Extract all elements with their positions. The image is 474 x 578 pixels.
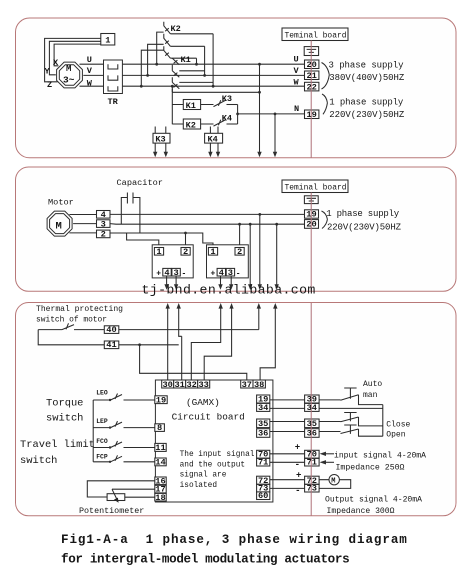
- panel 1 border frame: [16, 18, 457, 158]
- svg-text:Open: Open: [386, 430, 405, 439]
- arrow riser A3: [191, 308, 220, 381]
- svg-text:M: M: [331, 478, 335, 486]
- svg-text:60: 60: [258, 491, 268, 501]
- wire drop c: [276, 224, 278, 285]
- svg-text:71: 71: [258, 458, 268, 468]
- capacitor C plates: [127, 193, 133, 204]
- red fold line panel 1: [310, 41, 312, 158]
- panel 3 border frame: [16, 303, 457, 516]
- svg-text:switch: switch: [20, 455, 57, 467]
- svg-text:19: 19: [306, 110, 316, 120]
- wire K2 coil leads: [172, 123, 213, 125]
- svg-text:20: 20: [306, 60, 316, 70]
- junction dots panel 2: [184, 213, 278, 234]
- relay1 pin 4: [163, 268, 171, 276]
- brace 1 phase: [322, 94, 327, 114]
- svg-text:380V(400V)50HZ: 380V(400V)50HZ: [329, 73, 405, 83]
- right terminal 71: [257, 458, 270, 466]
- terminal 30: [162, 380, 174, 388]
- svg-text:Torque: Torque: [46, 398, 83, 410]
- wire K2 output to V: [170, 46, 204, 75]
- arrow riser A5: [258, 308, 260, 330]
- wire phase V: [83, 74, 304, 76]
- svg-text:Fig1-A-a 1 phase, 3 phase wir: Fig1-A-a 1 phase, 3 phase wiring diagram: [61, 533, 408, 547]
- svg-text:U: U: [294, 55, 299, 65]
- wire K3 box stubs: [155, 127, 166, 153]
- svg-text:20: 20: [306, 220, 316, 230]
- switch FCO: [93, 441, 155, 448]
- relay coil K1 box: [183, 100, 200, 110]
- thermal switch of motor: [38, 323, 104, 329]
- svg-text:K3: K3: [222, 94, 232, 104]
- potentiometer: [107, 494, 125, 501]
- svg-text:14: 14: [155, 458, 165, 468]
- left terminal 8: [155, 424, 165, 432]
- arrow riser A6: [260, 308, 275, 381]
- ground symbol panel2: [304, 196, 318, 204]
- relay1 pin 3: [172, 268, 180, 276]
- svg-text:for intergral-model modulating: for intergral-model modulating actuators: [61, 553, 349, 567]
- terminal 3 box: [97, 220, 111, 228]
- svg-text:Teminal board: Teminal board: [285, 31, 347, 41]
- right terminal 73: [257, 484, 270, 492]
- svg-text:Teminal board: Teminal board: [285, 183, 347, 193]
- junction aux node: [236, 113, 239, 116]
- column2 terminal 73: [305, 484, 320, 492]
- wire phase U: [80, 63, 305, 65]
- svg-text:4: 4: [219, 268, 224, 278]
- svg-text:34: 34: [258, 403, 268, 413]
- wire tap U to contactor K2: [157, 32, 164, 64]
- terminal board box: [282, 28, 348, 41]
- svg-text:X: X: [53, 58, 59, 68]
- relay1 pin 1: [154, 248, 163, 256]
- svg-text:3~: 3~: [63, 75, 75, 86]
- relay1 pin 2: [181, 248, 190, 256]
- svg-text:Thermal protecting: Thermal protecting: [36, 304, 123, 314]
- terminal 21: [305, 71, 319, 80]
- output loop wire: [319, 480, 351, 489]
- svg-text:Output signal 4-20mA: Output signal 4-20mA: [325, 494, 422, 504]
- wire to terminal 37: [140, 345, 247, 380]
- capacitor left lead: [121, 198, 127, 225]
- wire aux loop left vertical: [171, 86, 173, 124]
- wire 36-36: [270, 431, 305, 433]
- svg-text:220V(230V)50HZ: 220V(230V)50HZ: [329, 110, 405, 120]
- brace 3 phase: [322, 63, 330, 90]
- wire motor to terminal 4: [69, 214, 96, 216]
- terminal 4 box: [97, 211, 111, 219]
- right terminal 35: [257, 419, 270, 428]
- svg-text:36: 36: [307, 429, 317, 439]
- capacitor right lead: [133, 198, 140, 234]
- svg-text:TR: TR: [108, 97, 119, 107]
- right terminal 72: [257, 476, 270, 484]
- terminal 2 box: [97, 230, 111, 238]
- svg-text:switch of motor: switch of motor: [36, 315, 107, 325]
- svg-text:Auto: Auto: [363, 380, 382, 389]
- wire K1 output to W: [179, 81, 213, 83]
- svg-text:U: U: [87, 55, 92, 65]
- relay2 pin 4: [217, 268, 225, 276]
- column2 terminal 70: [305, 450, 320, 458]
- svg-text:and the output: and the output: [180, 461, 246, 469]
- relay block 2: [207, 245, 249, 278]
- svg-text:LEP: LEP: [96, 418, 108, 425]
- wire motor to terminal 3: [73, 223, 96, 225]
- svg-text:LEO: LEO: [96, 390, 108, 397]
- svg-text:+: +: [295, 443, 300, 453]
- wire relay1 input 1: [127, 233, 159, 248]
- panel 2 border frame: [16, 167, 457, 291]
- thermal switch loop wire: [38, 330, 104, 345]
- wire terminal 4 to board 19: [110, 213, 305, 215]
- svg-text:N: N: [294, 104, 299, 114]
- svg-text:FCP: FCP: [96, 453, 108, 460]
- wire 34-34: [270, 407, 305, 409]
- svg-text:Travel limit: Travel limit: [20, 439, 95, 451]
- wire K3 output: [227, 104, 238, 106]
- svg-text:19: 19: [156, 395, 166, 405]
- motor M single phase: [47, 211, 72, 236]
- column2 terminal 35: [305, 419, 320, 428]
- svg-text:man: man: [363, 391, 378, 400]
- wire 73-73: [270, 487, 305, 489]
- wire drop b: [249, 224, 251, 285]
- terminal box 1: [101, 34, 115, 46]
- svg-text:switch: switch: [46, 413, 83, 425]
- svg-text:2: 2: [237, 247, 242, 257]
- switch common wire: [92, 400, 94, 462]
- svg-text:+: +: [211, 269, 216, 278]
- column2 terminal 72: [305, 476, 320, 484]
- wire K2/K1 output to U: [170, 58, 196, 64]
- wire terminal 16 loop: [87, 481, 155, 497]
- switch LEO: [93, 394, 155, 401]
- svg-text:-: -: [295, 486, 300, 496]
- svg-text:(GAMX): (GAMX): [186, 397, 220, 408]
- junction N drop: [274, 113, 277, 116]
- terminal 31: [174, 380, 186, 388]
- left terminal 18: [155, 493, 166, 501]
- wire drop a: [259, 214, 261, 285]
- left terminal 11: [155, 443, 166, 451]
- column2 terminal 39: [305, 395, 320, 403]
- svg-text:K2: K2: [171, 24, 181, 34]
- svg-text:18: 18: [155, 493, 165, 503]
- relay contact K3 box: [153, 133, 170, 143]
- svg-text:tj-bnd.en.alibaba.com: tj-bnd.en.alibaba.com: [142, 283, 316, 298]
- junction dots phase taps: [140, 63, 215, 88]
- wire tap V to contactor K2: [148, 44, 164, 75]
- arrow riser A4: [204, 308, 231, 381]
- relay contact K4 box: [205, 133, 223, 143]
- wire 19-39: [270, 399, 305, 401]
- GAMX circuit board: [155, 380, 273, 502]
- svg-text:Y: Y: [45, 67, 51, 77]
- svg-text:1 phase supply: 1 phase supply: [329, 98, 404, 108]
- wire aux loop top: [172, 91, 259, 93]
- left terminal 14: [155, 458, 166, 466]
- svg-text:W: W: [87, 78, 93, 88]
- wire 41 run: [119, 344, 179, 346]
- svg-text:3: 3: [173, 268, 178, 278]
- right terminal 60: [257, 492, 270, 500]
- wire motor to terminal 2: [69, 232, 96, 234]
- svg-text:Potentiometer: Potentiometer: [79, 506, 144, 516]
- wire terminal 17 to wiper: [112, 488, 155, 490]
- svg-text:+: +: [156, 269, 161, 278]
- contactor K1 blades: [172, 58, 179, 92]
- svg-text:Capacitor: Capacitor: [117, 178, 163, 188]
- terminal 19: [305, 110, 319, 119]
- svg-text:Impedance 300Ω: Impedance 300Ω: [327, 506, 395, 516]
- output motor m: [329, 475, 339, 485]
- terminal 40 box: [104, 326, 119, 334]
- svg-text:K4: K4: [222, 113, 232, 123]
- svg-text:1: 1: [210, 247, 215, 257]
- junction aux top drop: [258, 91, 261, 94]
- svg-text:33: 33: [198, 380, 208, 390]
- svg-text:8: 8: [157, 423, 162, 433]
- svg-text:Close: Close: [386, 421, 410, 430]
- potentiometer wiper arrow: [112, 489, 117, 499]
- relay2 pin 3: [226, 268, 234, 276]
- relay block 1: [152, 245, 193, 278]
- wire terminal 2 run: [110, 233, 213, 248]
- svg-text:W: W: [294, 78, 300, 88]
- wire motor Y to terminal box 1: [49, 41, 100, 75]
- svg-text:37: 37: [242, 380, 252, 390]
- svg-text:2: 2: [183, 247, 188, 257]
- svg-text:41: 41: [106, 340, 116, 350]
- switch open: [319, 429, 383, 436]
- svg-text:-: -: [236, 269, 241, 278]
- svg-text:M: M: [66, 64, 71, 74]
- left terminal 19: [155, 396, 167, 404]
- svg-text:1: 1: [105, 36, 110, 46]
- svg-text:11: 11: [155, 443, 165, 453]
- wire K4 output: [227, 123, 238, 125]
- wire terminal 3 to board 20: [110, 223, 305, 226]
- terminal 20 panel2: [305, 220, 319, 229]
- terminal 22: [305, 82, 319, 91]
- relay2 pin 1: [208, 248, 217, 256]
- svg-text:1 phase supply: 1 phase supply: [326, 209, 400, 219]
- wire 70-70: [270, 453, 305, 455]
- right terminal 36: [257, 429, 270, 438]
- svg-text:3: 3: [228, 268, 233, 278]
- svg-text:K3: K3: [155, 135, 165, 145]
- switch K3: [214, 100, 226, 106]
- svg-text:signal are: signal are: [180, 472, 227, 480]
- svg-text:Z: Z: [47, 80, 52, 90]
- junction U drop: [258, 63, 261, 66]
- motor M 3-phase: [57, 62, 83, 88]
- wire K2 output to W: [170, 34, 213, 86]
- svg-text:2: 2: [101, 230, 106, 240]
- svg-text:K1: K1: [186, 101, 196, 111]
- svg-text:36: 36: [258, 429, 268, 439]
- brace 1 phase panel2: [322, 211, 328, 229]
- switch K4: [214, 120, 226, 126]
- svg-text:K4: K4: [208, 135, 218, 145]
- terminal 41 box: [104, 341, 119, 349]
- svg-text:34: 34: [307, 403, 317, 413]
- red fold line panel 3: [310, 303, 312, 516]
- switch close: [319, 417, 383, 426]
- terminal 19 panel2: [305, 210, 319, 218]
- wire 72-72: [270, 479, 305, 481]
- right terminal 34: [257, 403, 270, 411]
- svg-text:35: 35: [307, 419, 317, 429]
- right terminal 19: [257, 395, 270, 403]
- wire 35-35: [270, 421, 305, 423]
- wire K1 coil leads: [172, 104, 213, 106]
- wire K4 box stubs: [210, 127, 218, 153]
- svg-text:input signal 4-20mA: input signal 4-20mA: [334, 450, 426, 460]
- red fold line panel 2: [310, 193, 312, 292]
- svg-text:-: -: [182, 269, 187, 278]
- relay1 output arrows: [167, 276, 177, 285]
- svg-text:+: +: [296, 471, 301, 481]
- svg-text:K2: K2: [186, 120, 196, 130]
- svg-text:Circuit board: Circuit board: [172, 412, 245, 423]
- junction 41 branch: [138, 343, 141, 346]
- wire relay1 input 2: [185, 233, 187, 248]
- column2 terminal 36: [305, 429, 320, 438]
- wire relay2 input 2: [239, 224, 241, 247]
- svg-text:The input signal: The input signal: [180, 451, 255, 459]
- terminal 37: [241, 380, 253, 388]
- ground symbol: [304, 47, 318, 56]
- svg-text:FCO: FCO: [96, 438, 108, 445]
- wire aux right vertical: [237, 105, 239, 125]
- relay2 pin 2: [235, 248, 244, 256]
- svg-text:32: 32: [186, 380, 196, 390]
- switch LEP: [93, 421, 155, 428]
- relay coil K2 box: [183, 119, 200, 129]
- svg-text:3 phase supply: 3 phase supply: [329, 61, 405, 71]
- svg-text:71: 71: [307, 458, 317, 468]
- svg-text:19: 19: [306, 210, 316, 220]
- wire motor X to terminal box 1: [54, 44, 101, 66]
- right terminal 70: [257, 450, 270, 458]
- terminal 32: [186, 380, 198, 388]
- wire motor Z to terminal box 1: [45, 38, 101, 81]
- switch FCP: [93, 455, 155, 462]
- svg-text:220V(230V)50HZ: 220V(230V)50HZ: [327, 223, 402, 233]
- svg-text:-: -: [295, 460, 300, 470]
- svg-text:isolated: isolated: [180, 482, 217, 490]
- wire tap W to contactor K2: [141, 50, 163, 86]
- svg-text:V: V: [294, 66, 300, 76]
- left terminal 16: [155, 477, 166, 485]
- svg-text:35: 35: [258, 419, 268, 429]
- svg-text:V: V: [87, 66, 93, 76]
- wire drop to terminal 30: [167, 345, 169, 380]
- contactor K2 blades: [164, 22, 171, 58]
- thermal relay TR: [104, 60, 123, 94]
- column2 terminal 71: [305, 458, 320, 466]
- terminal 20: [305, 60, 319, 69]
- svg-text:73: 73: [307, 484, 317, 494]
- wire drop to actuator 2: [274, 114, 276, 153]
- wire 71-71: [270, 461, 305, 463]
- wire phase W: [80, 85, 305, 87]
- relay2 output arrows: [221, 276, 232, 285]
- input signal arrows: [323, 453, 334, 455]
- svg-text:Impedance 250Ω: Impedance 250Ω: [336, 462, 405, 472]
- left terminal 17: [155, 485, 166, 493]
- svg-text:4: 4: [164, 268, 169, 278]
- terminal board box panel2: [282, 180, 348, 193]
- svg-text:38: 38: [254, 380, 264, 390]
- terminal 38: [253, 380, 265, 388]
- wire drop to terminal 31: [181, 336, 183, 380]
- svg-text:30: 30: [162, 380, 172, 390]
- svg-text:40: 40: [106, 325, 116, 335]
- svg-text:31: 31: [174, 380, 184, 390]
- arrow riser A1: [167, 308, 169, 345]
- wire to terminal N 19: [238, 113, 305, 115]
- svg-text:21: 21: [306, 71, 316, 81]
- wire terminal 18: [125, 496, 155, 498]
- terminal 33: [198, 380, 210, 388]
- svg-text:M: M: [56, 221, 62, 233]
- wire K1 output to V: [179, 70, 204, 72]
- svg-text:K1: K1: [181, 55, 191, 65]
- svg-text:3: 3: [101, 219, 106, 229]
- svg-text:22: 22: [306, 82, 316, 92]
- wire drop to actuator 1: [259, 64, 261, 152]
- wire 40 run: [119, 329, 259, 331]
- arrow riser A2: [179, 308, 182, 337]
- svg-text:1: 1: [156, 247, 161, 257]
- svg-text:Motor: Motor: [48, 198, 74, 208]
- column2 terminal 34: [305, 403, 320, 411]
- switch auto/man: [319, 395, 383, 436]
